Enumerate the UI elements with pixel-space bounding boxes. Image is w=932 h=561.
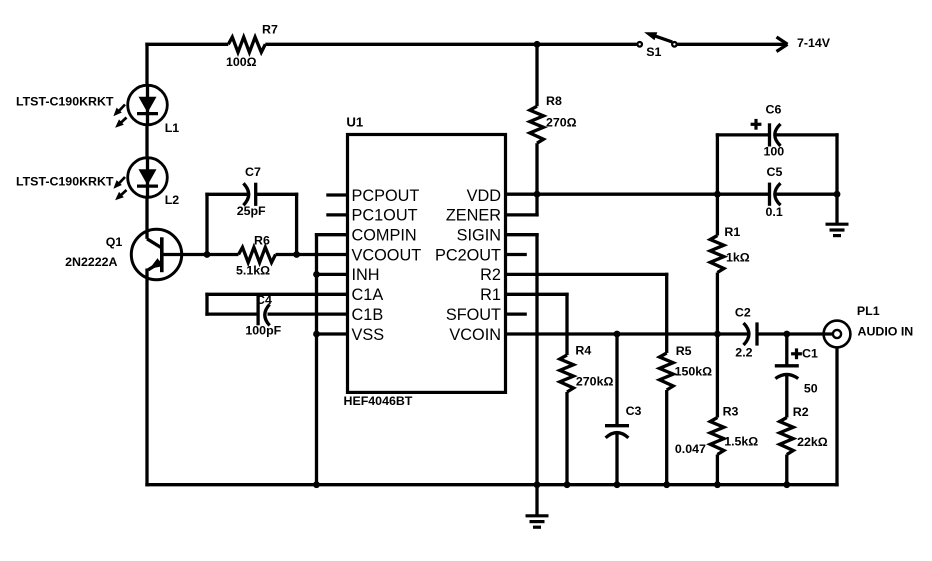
svg-text:C1B: C1B bbox=[352, 306, 384, 324]
svg-text:L1: L1 bbox=[165, 121, 180, 135]
svg-text:R1: R1 bbox=[480, 286, 501, 304]
svg-text:LTST-C190KRKT: LTST-C190KRKT bbox=[16, 175, 114, 189]
svg-text:R3: R3 bbox=[723, 404, 739, 418]
svg-text:R8: R8 bbox=[546, 94, 562, 108]
svg-text:HEF4046BT: HEF4046BT bbox=[344, 394, 413, 408]
svg-text:VDD: VDD bbox=[467, 187, 501, 205]
svg-text:PC2OUT: PC2OUT bbox=[435, 246, 501, 264]
svg-text:R5: R5 bbox=[676, 344, 692, 358]
svg-text:7-14V: 7-14V bbox=[797, 36, 831, 50]
svg-text:R7: R7 bbox=[262, 23, 278, 37]
svg-text:0.047: 0.047 bbox=[675, 442, 706, 456]
svg-text:S1: S1 bbox=[646, 45, 661, 59]
svg-text:C4: C4 bbox=[256, 293, 272, 307]
svg-text:C2: C2 bbox=[735, 305, 751, 319]
svg-text:22kΩ: 22kΩ bbox=[797, 435, 828, 449]
svg-text:L2: L2 bbox=[165, 193, 180, 207]
svg-text:C7: C7 bbox=[245, 165, 261, 179]
svg-text:50: 50 bbox=[804, 382, 818, 396]
svg-text:R1: R1 bbox=[724, 225, 740, 239]
svg-text:COMPIN: COMPIN bbox=[352, 227, 417, 245]
svg-text:PCPOUT: PCPOUT bbox=[352, 187, 420, 205]
svg-text:100Ω: 100Ω bbox=[226, 55, 257, 69]
svg-text:2.2: 2.2 bbox=[735, 346, 752, 360]
svg-text:R6: R6 bbox=[254, 234, 270, 248]
svg-text:R4: R4 bbox=[575, 344, 591, 358]
svg-text:ZENER: ZENER bbox=[446, 207, 501, 225]
svg-text:VSS: VSS bbox=[352, 326, 385, 344]
svg-text:INH: INH bbox=[352, 266, 380, 284]
svg-text:U1: U1 bbox=[346, 114, 363, 129]
svg-text:SIGIN: SIGIN bbox=[457, 227, 501, 245]
svg-text:5.1kΩ: 5.1kΩ bbox=[236, 264, 270, 278]
svg-text:VCOIN: VCOIN bbox=[449, 326, 501, 344]
svg-text:270kΩ: 270kΩ bbox=[576, 375, 614, 389]
svg-text:2N2222A: 2N2222A bbox=[65, 255, 117, 269]
svg-text:100pF: 100pF bbox=[245, 324, 281, 338]
svg-text:AUDIO IN: AUDIO IN bbox=[858, 325, 914, 339]
svg-text:PC1OUT: PC1OUT bbox=[352, 207, 418, 225]
svg-text:0.1: 0.1 bbox=[766, 205, 783, 219]
svg-text:R2: R2 bbox=[480, 266, 501, 284]
svg-text:270Ω: 270Ω bbox=[546, 115, 577, 129]
svg-text:1kΩ: 1kΩ bbox=[726, 250, 750, 264]
svg-text:SFOUT: SFOUT bbox=[446, 306, 501, 324]
svg-text:25pF: 25pF bbox=[237, 204, 266, 218]
svg-text:C1A: C1A bbox=[352, 286, 384, 304]
svg-text:1.5kΩ: 1.5kΩ bbox=[724, 434, 758, 448]
svg-text:C6: C6 bbox=[766, 103, 782, 117]
svg-text:Q1: Q1 bbox=[106, 235, 123, 249]
svg-text:VCOOUT: VCOOUT bbox=[352, 246, 422, 264]
svg-text:C5: C5 bbox=[767, 165, 783, 179]
svg-text:R2: R2 bbox=[793, 405, 809, 419]
svg-text:C3: C3 bbox=[626, 404, 642, 418]
svg-text:150kΩ: 150kΩ bbox=[675, 364, 713, 378]
svg-text:C1: C1 bbox=[802, 346, 818, 360]
svg-text:100: 100 bbox=[764, 144, 785, 158]
svg-text:LTST-C190KRKT: LTST-C190KRKT bbox=[16, 95, 114, 109]
svg-text:PL1: PL1 bbox=[857, 304, 880, 318]
